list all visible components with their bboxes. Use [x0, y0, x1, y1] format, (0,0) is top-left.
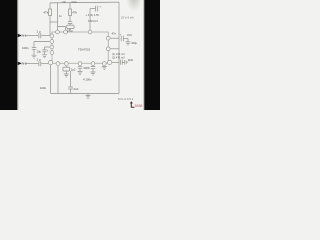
svg-text:1 µ: 1 µ [36, 29, 41, 33]
wire: C4 to corner pin 5 [41, 62, 48, 64]
wire: C6 to IC top [69, 29, 71, 31]
capacitor C9 plates [78, 66, 83, 68]
pin 3 left [50, 45, 54, 49]
svg-text:6 MCA 6: 6 MCA 6 [88, 19, 99, 23]
wire: corner pin 12 to output net [112, 61, 119, 63]
wire: C10 to bottom rail [70, 89, 72, 93]
wire: pin 8 stub [79, 65, 81, 67]
pin 1 left [50, 34, 54, 38]
wire: input 1 line [25, 35, 39, 37]
capacitor C8 electrolytic body [63, 67, 70, 71]
capacitor C11 electrolytic plates [91, 67, 96, 69]
IC U1 body [52, 32, 108, 63]
capacitor C4 plates [39, 61, 41, 66]
pin 12 corner [108, 60, 112, 64]
svg-text:1 µ: 1 µ [36, 57, 41, 61]
svg-text:IN 2: IN 2 [21, 62, 27, 66]
pin 5 corner [48, 60, 52, 64]
wire: bottom ground rail [51, 93, 119, 95]
capacitor C1 plates [39, 33, 41, 38]
svg-text:+ 6 (2) 4.5V: + 6 (2) 4.5V [86, 13, 100, 17]
wire: pin 13 arm [110, 48, 119, 50]
ground on bottom rail [86, 94, 91, 99]
pin 10 bottom [91, 62, 95, 66]
svg-text:10 V; 6 mA: 10 V; 6 mA [121, 16, 134, 20]
input terminal IN2 [18, 62, 22, 66]
pin 3 top [64, 30, 68, 34]
wire: C9 to ground [79, 69, 81, 72]
svg-text:16Ω: 16Ω [128, 58, 133, 62]
red stamp glyph [130, 102, 134, 108]
wire: C1 to pin 1 [41, 35, 49, 37]
wire: pin 3 to C3 [45, 47, 50, 50]
svg-text:IN 1: IN 1 [21, 34, 27, 38]
wire: right vertical continues to bottom rail [118, 36, 120, 94]
wire: R2 top from rail [69, 3, 71, 9]
svg-text:47k: 47k [43, 10, 48, 14]
ground for C11 [91, 72, 96, 75]
wire: pin 7 stub [65, 66, 67, 67]
pin 16 left [50, 51, 54, 55]
wire: C2 to ground [33, 50, 35, 55]
pin 13 right [106, 47, 110, 51]
page background [0, 0, 160, 110]
svg-text:TDA7052: TDA7052 [78, 48, 91, 52]
svg-text:MGG652: MGG652 [118, 97, 134, 101]
resistor R1 [49, 9, 52, 16]
capacitor C13 plates [120, 60, 122, 65]
svg-text:100µ: 100µ [131, 41, 137, 45]
svg-text:+: + [47, 48, 49, 52]
svg-text:4 100n: 4 100n [83, 77, 92, 81]
wire: C5 to C6 box [69, 24, 71, 25]
wire: rail drop to pin 4 (x57.5) [57, 3, 59, 30]
svg-text:VP: VP [62, 1, 66, 4]
ground for C2 [32, 55, 37, 58]
svg-text:47k: 47k [72, 10, 77, 14]
svg-text:+: + [99, 5, 101, 9]
capacitor C7 plates [96, 6, 98, 12]
wire: pin5 down the left to bottom rail [50, 65, 52, 94]
svg-text:(2) 470 mV: (2) 470 mV [112, 55, 125, 59]
svg-text:5588: 5588 [135, 104, 143, 108]
wire: pin 9 vertical to C7 [89, 9, 91, 30]
resistor R2 [69, 9, 72, 16]
svg-text:10µ: 10µ [37, 50, 42, 54]
wire: top supply rail [50, 1, 119, 4]
svg-text:2µ2: 2µ2 [71, 68, 76, 72]
wire: C3 to ground [44, 52, 46, 54]
wire: C13 to ground [123, 61, 125, 63]
pin 6 bottom [56, 62, 60, 66]
svg-text:100n: 100n [22, 46, 29, 50]
wire: pin 6 stub to bottom rail [57, 66, 59, 94]
wire: R2 bottom to C5 [69, 16, 71, 22]
capacitor C10 plates [68, 87, 73, 89]
capacitor C6 electrolytic body [67, 25, 74, 28]
ground for C8 [64, 74, 69, 77]
scan shadow smudge top right [127, 0, 141, 13]
pin 8 bottom [78, 62, 82, 66]
svg-text:+: + [88, 66, 90, 70]
right black band [144, 0, 160, 110]
capacitor C2 plates [32, 47, 36, 49]
ground for C12 [126, 42, 131, 45]
ground for C13 [125, 60, 128, 65]
svg-text:47n: 47n [112, 31, 117, 35]
svg-text:100n: 100n [71, 1, 77, 4]
wire: pin 11 stub [103, 65, 105, 67]
wire: pin 10 stub [92, 65, 94, 67]
wire: R1 bottom to input node [49, 16, 51, 36]
svg-text:100µ: 100µ [67, 29, 73, 33]
pin 4 top [56, 30, 60, 34]
wire: branch R1 node to x57.5 [50, 21, 58, 23]
svg-text:2n2: 2n2 [74, 87, 79, 91]
svg-text:100n: 100n [40, 86, 47, 90]
wire: C11 to ground [92, 69, 94, 72]
wire: pin4 to pin3 link at y26.5 [58, 27, 66, 30]
pin 14 right [106, 36, 110, 40]
pin 11 bottom [102, 62, 106, 66]
capacitor C5 plates [68, 22, 73, 24]
left black band [0, 0, 17, 110]
ground for C9 [78, 72, 83, 75]
wire: R1 top from rail [49, 3, 51, 9]
wire: pin 14 to battery node [110, 37, 119, 39]
capacitor C3 plates [42, 50, 46, 52]
wire: right supply drop from rail [118, 2, 120, 36]
pin 2 left [50, 40, 54, 44]
ground for pin 11 [102, 66, 107, 69]
input terminal IN1 [18, 34, 22, 38]
wire: pin 2 to C2 [34, 42, 50, 48]
capacitor C12 plates [121, 36, 123, 42]
ground for C3 [42, 55, 47, 58]
wire: C8 to ground [65, 71, 67, 74]
pin 7 bottom [64, 62, 68, 66]
svg-text:100n: 100n [127, 34, 133, 37]
wire: input 2 line [25, 62, 39, 64]
wire: C7 horizontal arm [90, 8, 95, 10]
wire: long drop to C10 [70, 71, 72, 87]
wire: C12 to ground [124, 38, 128, 41]
pin 9 top [88, 30, 92, 34]
